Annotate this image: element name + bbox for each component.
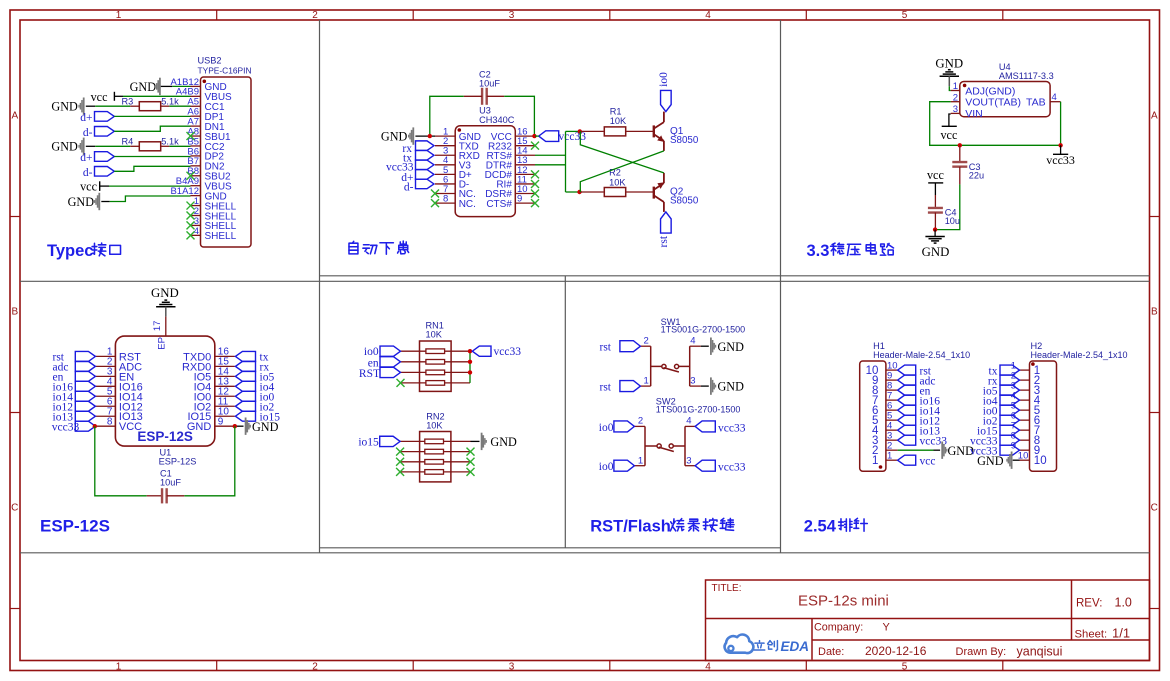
SW2 pin 1 — [634, 465, 645, 467]
no-connect X on RN2 pin 6 — [467, 468, 475, 476]
H2 pin 2 — [1020, 379, 1030, 381]
H1 pin 2 — [886, 449, 898, 451]
U3 pin 11 RI# — [515, 183, 535, 185]
capacitor C1 — [147, 495, 162, 497]
svg-text:10uF: 10uF — [479, 79, 500, 89]
svg-text:10K: 10K — [610, 116, 627, 126]
H2 pin 9 — [1020, 449, 1030, 451]
net flag io2 (H2 pin 6) — [1000, 415, 1020, 425]
svg-text:1: 1 — [116, 10, 122, 21]
svg-text:ESP-12s mini: ESP-12s mini — [798, 593, 889, 610]
svg-text:1TS001G-2700-1500: 1TS001G-2700-1500 — [661, 325, 746, 335]
no-connect X on U3 pin 7 — [431, 190, 439, 198]
svg-text:2: 2 — [953, 92, 958, 103]
power flag GND (SW1 pin3) — [701, 385, 709, 387]
module U1 ESP-12S body — [115, 336, 214, 446]
U1 pin 3 EN — [95, 375, 115, 377]
svg-text:SHELL: SHELL — [205, 231, 237, 242]
U3 pin 2 TXD — [435, 145, 455, 147]
net flag vcc33 (H2 pin 9) — [1000, 445, 1020, 455]
U1 pin 17 EP — [165, 317, 167, 337]
junction RN1 out 1 — [468, 349, 472, 353]
net flag en (H1 pin 8) — [898, 385, 916, 395]
U1 pin 12 IO0 — [215, 395, 235, 397]
RN2 element 1 — [400, 440, 425, 442]
svg-text:GND: GND — [381, 130, 408, 144]
H1 pin 5 — [886, 419, 898, 421]
connector H1 body — [860, 361, 886, 471]
svg-text:3: 3 — [509, 661, 515, 672]
net flag vcc33 (SW2 pin4) — [695, 421, 715, 432]
svg-text:3: 3 — [690, 376, 695, 387]
U3 pin 16 VCC — [515, 135, 535, 137]
net port d+ (DP2) — [95, 152, 115, 162]
svg-text:io0: io0 — [599, 461, 614, 473]
net flag io4 (H2 pin 4) — [1000, 395, 1020, 405]
resistor R4 — [130, 145, 139, 147]
net port rx (U3 TXD) — [416, 141, 435, 151]
svg-text:io0: io0 — [658, 72, 670, 87]
no-connect X on U3 pin 12 — [531, 170, 539, 178]
net port en — [75, 371, 95, 381]
RN2 element 2 — [400, 451, 425, 453]
svg-text:ADJ(GND): ADJ(GND) — [965, 85, 1015, 97]
U3 pin 12 DCD# — [515, 173, 535, 175]
net flag io15 (H2 pin 7) — [1000, 425, 1020, 435]
U1 pin 8 VCC — [95, 425, 115, 427]
no-connect X on RN2 pin 2 — [396, 448, 404, 456]
svg-text:1: 1 — [872, 455, 878, 467]
net port io0 (Q1 collector) — [661, 90, 672, 111]
junction (R1 input node) — [578, 129, 582, 133]
section caption auto-download — [349, 241, 409, 254]
svg-text:d+: d+ — [80, 152, 92, 164]
wire RN1 outputs bus — [469, 351, 471, 383]
net port tx (U3 RXD) — [416, 150, 435, 160]
junction (U3 pin1 / C2 / GND) — [428, 134, 432, 138]
U4 pin 2 VOUT(TAB) — [951, 101, 960, 103]
H2 pin 4 — [1020, 399, 1030, 401]
svg-text:d+: d+ — [80, 112, 92, 124]
junction (rail / vcc33) — [1058, 143, 1062, 147]
svg-text:io0: io0 — [364, 346, 379, 358]
svg-text:d-: d- — [83, 127, 93, 139]
svg-text:10K: 10K — [426, 420, 443, 430]
no-connect X on USB2 pin 2 — [187, 211, 195, 219]
transistor Q1 S8050 — [654, 112, 664, 151]
svg-text:2: 2 — [638, 416, 643, 427]
wire GND to C1 — [184, 426, 235, 496]
wire — [114, 166, 190, 171]
net port tx — [235, 351, 255, 361]
U1 pin 5 IO14 — [95, 395, 115, 397]
junction RN1 out 2 — [468, 360, 472, 364]
svg-text:VIN: VIN — [965, 108, 983, 120]
wire — [110, 196, 191, 202]
U4 pin 4 TAB — [1050, 101, 1061, 103]
svg-text:22u: 22u — [969, 170, 984, 180]
wire — [535, 135, 539, 137]
H1 pin 9 — [886, 379, 898, 381]
USB2 pin 3 SHELL — [191, 224, 201, 226]
no-connect X on U3 pin 8 — [431, 199, 439, 207]
U1 pin 1 RST — [95, 355, 115, 357]
svg-text:2: 2 — [312, 10, 318, 21]
svg-text:10u: 10u — [945, 216, 960, 226]
net port d+ (U3 D+) — [416, 170, 435, 180]
U3 pin 7 NC. — [435, 193, 455, 195]
wire — [430, 96, 464, 136]
RN2 element 3 — [400, 461, 425, 463]
wire VCC to C1 — [95, 426, 147, 496]
svg-text:5.1k: 5.1k — [161, 96, 179, 106]
power flag GND (H1 pin2) — [934, 449, 941, 451]
H1 pin 7 — [886, 399, 898, 401]
U4 pin-1 anchor dot — [963, 84, 967, 88]
U3 pin 6 D- — [435, 183, 455, 185]
svg-text:EDA: EDA — [781, 639, 810, 654]
svg-text:10K: 10K — [609, 177, 626, 187]
net port vcc33 (U1 VCC) — [75, 421, 95, 431]
USB2 pin-1 anchor dot — [203, 80, 207, 84]
wire C3 to ground node — [935, 184, 960, 229]
net port io16 — [75, 381, 95, 391]
net flag rx (H2 pin 2) — [1000, 375, 1020, 385]
wire cross-couple Q2 emitter to R1 node — [580, 131, 664, 173]
IC U3 CH340C body — [455, 126, 515, 217]
net port io0 (SW2 pin2) — [614, 421, 635, 432]
svg-text:vcc33: vcc33 — [718, 462, 746, 474]
svg-text:R1: R1 — [610, 106, 622, 116]
switch SW2 body — [645, 426, 685, 465]
EasyEDA logo text — [754, 641, 777, 651]
svg-text:2: 2 — [312, 661, 318, 672]
svg-text:GND: GND — [922, 245, 950, 259]
H2 anchor dot — [1031, 362, 1035, 366]
svg-text:yanqisui: yanqisui — [1017, 644, 1063, 658]
junction (GND / C1) — [233, 424, 237, 428]
net flag io16 (H1 pin 7) — [898, 395, 916, 405]
svg-text:TAB: TAB — [1026, 97, 1046, 109]
svg-text:TITLE:: TITLE: — [712, 583, 742, 594]
svg-text:4: 4 — [686, 416, 691, 427]
RN1 element 3 — [401, 371, 427, 373]
svg-text:9: 9 — [517, 193, 522, 204]
capacitor C2 — [482, 88, 487, 105]
svg-text:NC.: NC. — [459, 199, 476, 210]
svg-text:1.0: 1.0 — [1115, 596, 1132, 610]
USB2 pin A1B12 GND — [191, 85, 201, 87]
USB2 pin A8 SBU1 — [191, 135, 201, 137]
svg-text:GND: GND — [151, 286, 179, 300]
H1 pin 6 — [886, 409, 898, 411]
net flag vcc33 (SW2 pin3) — [695, 460, 715, 471]
svg-text:3: 3 — [509, 10, 515, 21]
SW1 pin 3 — [690, 385, 701, 387]
junction (rail / C3) — [958, 143, 962, 147]
wire — [169, 145, 190, 147]
svg-text:RST: RST — [359, 368, 380, 380]
net port adc — [75, 361, 95, 371]
svg-text:vcc33: vcc33 — [52, 421, 80, 433]
wire — [114, 126, 190, 131]
H1 pin 10 — [886, 369, 898, 371]
svg-text:4: 4 — [705, 10, 711, 21]
svg-text:S8050: S8050 — [670, 195, 699, 206]
svg-text:B: B — [11, 307, 18, 318]
USB2 pin B7 DN2 — [191, 165, 201, 167]
no-connect X on USB2 pin 4 — [187, 231, 195, 239]
title block frame — [706, 580, 1150, 661]
net port d- (DN1) — [95, 127, 115, 137]
svg-text:1: 1 — [953, 81, 958, 92]
H2 pin 3 — [1020, 389, 1030, 391]
no-connect X on U3 pin 9 — [531, 199, 539, 207]
net port io15 — [235, 411, 255, 421]
svg-text:EP: EP — [157, 337, 168, 350]
svg-text:io15: io15 — [358, 436, 379, 448]
net flag adc (H1 pin 9) — [898, 375, 916, 385]
svg-text:vcc33: vcc33 — [559, 131, 587, 143]
svg-text:R3: R3 — [122, 96, 134, 106]
USB2 pin B5 CC2 — [191, 145, 201, 147]
svg-text:8: 8 — [443, 193, 448, 204]
net port io0 (SW2 pin1) — [614, 460, 635, 471]
U1 pin 16 TXD0 — [215, 355, 235, 357]
net port d- (U3 D-) — [416, 179, 435, 189]
svg-text:CH340C: CH340C — [479, 115, 515, 125]
svg-text:REV:: REV: — [1076, 598, 1102, 610]
no-connect X on U3 pin 10 — [531, 190, 539, 198]
svg-text:Drawn By:: Drawn By: — [956, 646, 1007, 658]
U4 pin 3 VIN — [951, 112, 960, 114]
earth ground flag (bottom) — [934, 230, 936, 237]
svg-text:Header-Male-2.54_1x10: Header-Male-2.54_1x10 — [873, 350, 970, 360]
svg-text:GND: GND — [187, 421, 212, 433]
resistor network RN2 body — [420, 432, 451, 482]
svg-text:A: A — [1151, 111, 1158, 122]
U3 pin 3 RXD — [435, 154, 455, 156]
USB2 pin B8 SBU2 — [191, 175, 201, 177]
resistor R1 — [580, 130, 604, 132]
wire — [114, 156, 190, 158]
switch SW1 body — [651, 346, 690, 386]
net flag io5 (H2 pin 3) — [1000, 385, 1020, 395]
svg-text:B: B — [1151, 307, 1158, 318]
svg-text:Sheet:: Sheet: — [1075, 628, 1108, 640]
no-connect X on RN2 pin 3 — [396, 458, 404, 466]
svg-text:rst: rst — [658, 235, 670, 247]
svg-text:Date:: Date: — [818, 646, 844, 658]
no-connect X on U3 pin 11 — [531, 180, 539, 188]
SW1 pin 2 — [640, 345, 650, 347]
no-connect X on USB2 pin A8 — [187, 132, 195, 140]
RN2 element 4 — [400, 471, 425, 473]
net flag io12 (H1 pin 5) — [898, 415, 916, 425]
net port io12 — [75, 401, 95, 411]
capacitor C3 — [959, 145, 961, 162]
svg-text:2020-12-16: 2020-12-16 — [865, 644, 927, 658]
net port rst — [75, 351, 95, 361]
USB2 pin 2 SHELL — [191, 214, 201, 216]
net flag vcc33 (U3 VCC) — [539, 131, 559, 142]
U1 pin 15 RXD0 — [215, 365, 235, 367]
svg-text:1/1: 1/1 — [1112, 625, 1130, 640]
power flag vcc33 (rail) — [1060, 145, 1062, 154]
net port rst (Q2 collector) — [661, 212, 672, 233]
svg-text:vcc: vcc — [91, 90, 109, 104]
U1 pin 9 GND — [215, 425, 235, 427]
power flag vcc (U4 VIN) — [949, 114, 951, 126]
svg-text:d-: d- — [404, 181, 414, 193]
svg-text:5: 5 — [902, 10, 908, 21]
connector H2 body — [1030, 361, 1057, 471]
net port io2 — [235, 401, 255, 411]
H2 pin 6 — [1020, 419, 1030, 421]
net port RST (RN1) — [380, 367, 401, 377]
RN1 element 4 — [401, 382, 427, 384]
net flag io13 (H1 pin 4) — [898, 425, 916, 435]
H2 pin 5 — [1020, 409, 1030, 411]
net port io14 — [75, 391, 95, 401]
svg-text:GND: GND — [68, 195, 95, 209]
no-connect X on USB2 pin B8 — [187, 172, 195, 180]
U3 pin 9 CTS# — [515, 202, 535, 204]
svg-text:GND: GND — [718, 380, 745, 394]
svg-text:VCC: VCC — [119, 421, 142, 433]
SW2 pin 2 — [634, 425, 645, 427]
svg-text:Typec: Typec — [47, 242, 93, 260]
H2 pin 10 — [1020, 459, 1030, 461]
svg-text:GND: GND — [718, 340, 745, 354]
svg-text:1: 1 — [644, 376, 649, 387]
wire — [95, 105, 130, 107]
no-connect X on U3 pin 15 — [531, 142, 539, 150]
no-connect X on RN2 pin 4 — [396, 468, 404, 476]
USB2 pin B6 DP2 — [191, 155, 201, 157]
svg-text:1: 1 — [638, 455, 643, 466]
svg-text:1: 1 — [116, 661, 122, 672]
U3 pin 4 V3 — [435, 164, 455, 166]
net port rst (SW1 pin1) — [620, 381, 641, 392]
section divider lines — [20, 20, 1150, 553]
U3 pin 10 DSR# — [515, 193, 535, 195]
svg-text:5: 5 — [902, 661, 908, 672]
svg-text:A: A — [11, 111, 18, 122]
USB2 pin A6 DP1 — [191, 115, 201, 117]
wire — [172, 85, 190, 87]
svg-text:ESP-12S: ESP-12S — [40, 517, 110, 536]
H1 pin 1 — [886, 459, 898, 461]
H2 pin 1 — [1020, 369, 1030, 371]
U3 pin 5 D+ — [435, 173, 455, 175]
svg-text:8: 8 — [107, 416, 113, 427]
svg-text:3.3: 3.3 — [807, 242, 830, 260]
U3 pin 13 DTR# — [515, 164, 535, 166]
svg-text:5.1k: 5.1k — [161, 136, 179, 146]
no-connect X on RN2 pin 8 — [467, 448, 475, 456]
svg-text:Y: Y — [883, 621, 891, 633]
net port rx — [235, 361, 255, 371]
net port d- (DN2) — [95, 167, 115, 177]
resistor network RN1 body — [420, 341, 452, 391]
svg-text:USB2: USB2 — [198, 56, 222, 66]
svg-text:d-: d- — [83, 167, 93, 179]
H1 anchor dot — [879, 465, 883, 469]
SW1 pin 4 — [690, 345, 701, 347]
resistor R2 — [580, 191, 604, 193]
H2 pin 7 — [1020, 429, 1030, 431]
net flag io14 (H1 pin 6) — [898, 405, 916, 415]
svg-text:GND: GND — [51, 100, 78, 114]
svg-text:GND: GND — [252, 420, 279, 434]
junction (U3 VCC / C2 / vcc33) — [532, 134, 536, 138]
svg-text:3: 3 — [953, 104, 958, 115]
wire — [95, 145, 130, 147]
transistor Q2 S8050 — [654, 173, 664, 212]
wire — [109, 185, 191, 187]
junction (VCC / C1) — [93, 424, 97, 428]
svg-text:GND: GND — [977, 454, 1004, 468]
junction (ground node) — [933, 227, 937, 231]
U1 pin 7 IO13 — [95, 415, 115, 417]
USB2 pin A5 CC1 — [191, 105, 201, 107]
svg-text:C: C — [1151, 503, 1158, 514]
svg-text:C: C — [11, 503, 18, 514]
svg-text:2: 2 — [644, 335, 649, 346]
svg-text:RST/Flash: RST/Flash — [590, 518, 671, 536]
svg-text:10: 10 — [1034, 455, 1047, 467]
svg-text:GND: GND — [935, 57, 963, 71]
U1 pin 4 IO16 — [95, 385, 115, 387]
svg-text:GND: GND — [51, 140, 78, 154]
SW1 pin 1 — [640, 385, 650, 387]
wire — [114, 115, 190, 117]
svg-text:17: 17 — [152, 321, 163, 332]
svg-text:2.54: 2.54 — [804, 518, 837, 536]
U3 pin 15 R232 — [515, 145, 535, 147]
H1 pin 3 — [886, 439, 898, 441]
svg-text:TYPE-C16PIN: TYPE-C16PIN — [198, 65, 252, 75]
wire cross-couple Q1 emitter to R2 node — [580, 151, 664, 192]
SW2 pin 3 — [685, 465, 695, 467]
connector USB2 body — [201, 77, 252, 247]
svg-text:ESP-12S: ESP-12S — [137, 429, 193, 444]
net flag vcc33 (H2 pin 8) — [1000, 435, 1020, 445]
U1 pin 11 IO2 — [215, 405, 235, 407]
net port io5 — [235, 371, 255, 381]
USB2 pin A7 DN1 — [191, 125, 201, 127]
IC U4 AMS1117-3.3 body — [960, 82, 1050, 117]
SW2 pin 4 — [685, 425, 695, 427]
U1 pin 10 IO15 — [215, 415, 235, 417]
svg-text:rst: rst — [600, 382, 612, 394]
U1 pin 13 IO4 — [215, 385, 235, 387]
H1 pin 4 — [886, 429, 898, 431]
U1 pin 14 IO5 — [215, 375, 235, 377]
wire RTS/DTR to transistor bases — [535, 154, 566, 156]
U1 pin 2 ADC — [95, 365, 115, 367]
U1 pin 6 IO12 — [95, 405, 115, 407]
svg-text:1TS001G-2700-1500: 1TS001G-2700-1500 — [656, 405, 741, 415]
svg-text:3: 3 — [686, 455, 691, 466]
net flag vcc (H1 pin 1) — [898, 455, 916, 465]
svg-text:vcc33: vcc33 — [494, 346, 522, 358]
wire — [504, 96, 534, 136]
EasyEDA logo cloud — [725, 635, 754, 654]
svg-text:rst: rst — [600, 342, 612, 354]
H2 pin 8 — [1020, 439, 1030, 441]
